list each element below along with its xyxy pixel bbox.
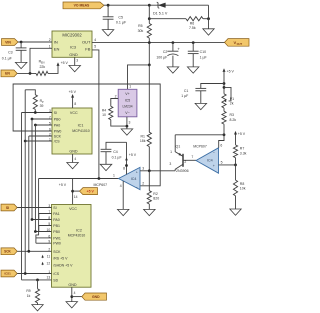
svg-text:OUT: OUT — [82, 39, 91, 44]
ground R2 — [144, 209, 156, 215]
wire bus b2 — [24, 90, 26, 274]
svg-text:LM234: LM234 — [122, 105, 132, 109]
svg-text:10: 10 — [102, 113, 106, 117]
digital pot IC2 MCP42010 box — [52, 205, 92, 288]
wire IC1 /CS pin — [25, 140, 52, 142]
pin numbers IC2 — [47, 204, 51, 279]
ground IC5 — [121, 129, 133, 135]
svg-text:MIC29302: MIC29302 — [62, 32, 82, 37]
wire bus b1 — [21, 113, 23, 280]
pin 8 label op-amp a — [123, 167, 125, 171]
wire IC2 VCC stem — [72, 179, 74, 205]
svg-text:PB0: PB0 — [53, 230, 60, 234]
svg-text:PW0: PW0 — [54, 130, 62, 134]
wire pin 5 net — [219, 164, 236, 166]
junction EN branch — [29, 72, 32, 75]
wire SCK to IC2 — [17, 250, 51, 252]
svg-text:3: 3 — [76, 59, 78, 63]
wire OUT rail — [92, 42, 225, 44]
pin 3 GND label — [76, 59, 78, 63]
svg-text:3: 3 — [142, 167, 144, 171]
junction OUT at C10 — [192, 41, 195, 44]
wire PW1 stub — [36, 237, 52, 239]
net label VO MEAS — [63, 2, 104, 9]
junction C1 tap — [223, 82, 226, 85]
svg-text:1: 1 — [113, 173, 115, 177]
svg-text:4: 4 — [74, 291, 76, 295]
wire bus b3 — [28, 136, 30, 251]
capacitor C1 1uF — [181, 84, 224, 104]
svg-text:MCP607: MCP607 — [193, 145, 207, 149]
junction IC5 branch — [148, 64, 151, 67]
net label VIN — [2, 39, 19, 46]
svg-text:−: − — [136, 185, 138, 189]
wire op-amp a V+ stub — [126, 142, 128, 174]
ground IC2 — [66, 302, 78, 308]
resistor R4 10 — [102, 99, 127, 127]
svg-text:1 µF: 1 µF — [181, 94, 188, 98]
resistor R6 7.5k — [186, 17, 203, 31]
resistor R5 30k — [138, 19, 152, 43]
ground C10 — [187, 67, 199, 73]
wire SI to IC2 — [17, 207, 51, 209]
svg-text:C4: C4 — [113, 150, 118, 154]
svg-text:+5 V: +5 V — [87, 189, 95, 193]
svg-text:EN: EN — [41, 61, 45, 64]
pin 2 label IC5 — [115, 95, 117, 99]
junction PB0 IC2 — [34, 230, 37, 233]
pin 5 label — [221, 160, 223, 164]
svg-text:30k: 30k — [138, 29, 144, 33]
svg-text:8: 8 — [74, 102, 76, 106]
wire IC5 V- stub — [126, 117, 128, 129]
power +5V arrow op-amp a — [125, 153, 137, 161]
svg-text:3: 3 — [129, 120, 131, 124]
svg-text:SI: SI — [53, 206, 56, 210]
wire OUT to IC5 V+ — [148, 43, 150, 65]
wire +5V rail drop to IC2 pots — [36, 179, 39, 244]
junction /CS1 bus — [24, 272, 27, 275]
svg-text:18k: 18k — [140, 139, 146, 143]
svg-text:6: 6 — [49, 127, 51, 131]
net label EN — [1, 70, 17, 77]
ground C4 — [100, 164, 112, 170]
svg-text:4: 4 — [120, 184, 122, 188]
svg-text:EN: EN — [54, 47, 60, 52]
svg-text:/RS +5 V: /RS +5 V — [53, 257, 68, 261]
svg-text:GND: GND — [68, 283, 77, 287]
svg-text:2N3906: 2N3906 — [176, 169, 189, 173]
junction IC5 ground — [126, 125, 129, 128]
resistor R2 820 — [147, 191, 159, 210]
power +5V arrow (EN pullup) — [57, 61, 69, 66]
wire EN branch to pin 1 — [30, 48, 52, 73]
wire SD pin — [22, 279, 52, 281]
svg-text:3: 3 — [169, 162, 171, 166]
wire +5V rail to op-amp — [39, 178, 119, 180]
wire wiper feedback — [13, 84, 160, 186]
svg-text:GND: GND — [69, 149, 78, 153]
svg-text:0.1 µF: 0.1 µF — [2, 56, 12, 60]
wire R6 rail — [149, 18, 208, 20]
power +5V arrow IC1 — [69, 90, 77, 108]
wire IC1 SI pin — [22, 112, 53, 114]
pin 7 label op-amp b — [191, 155, 193, 159]
ground C3 — [15, 62, 27, 68]
svg-text:PA0: PA0 — [53, 218, 59, 222]
capacitor C10 1uF — [188, 43, 207, 67]
svg-text:1: 1 — [129, 84, 131, 88]
svg-text:13: 13 — [47, 275, 51, 279]
pin 3 label op-amp a — [142, 167, 144, 171]
svg-text:R6: R6 — [190, 22, 195, 26]
svg-text:C2: C2 — [163, 50, 168, 54]
svg-text:/CS: /CS — [54, 140, 61, 144]
ground R8 — [230, 209, 241, 215]
pin 4 label op-amp a — [120, 184, 122, 188]
junction GND label tap — [70, 295, 73, 298]
svg-text:OUT: OUT — [237, 42, 243, 46]
power +5V arrow P1 column — [223, 68, 235, 73]
svg-text:12: 12 — [47, 261, 51, 265]
svg-text:1k: 1k — [27, 294, 31, 298]
svg-text:39: 39 — [40, 104, 44, 108]
pin numbers IC1 — [49, 102, 76, 161]
wire R2 column — [148, 171, 150, 191]
svg-text:22k: 22k — [39, 65, 45, 69]
junction P1 wiper tie — [223, 86, 226, 89]
svg-text:/SHDN +5 V: /SHDN +5 V — [53, 264, 73, 268]
svg-text:C5: C5 — [118, 15, 123, 19]
wire IC1 GND stem — [72, 154, 74, 163]
svg-text:+5 V: +5 V — [238, 132, 246, 136]
net label SI — [1, 204, 17, 211]
pin 14 label — [74, 195, 78, 199]
op-amp IC4 second half — [196, 148, 219, 173]
label MCP607 (a) — [94, 183, 108, 187]
svg-text:PA0: PA0 — [54, 124, 60, 128]
label +5V rail text — [59, 183, 67, 187]
net label SCK — [1, 248, 17, 255]
wire PW0 stub — [36, 242, 52, 244]
svg-text:GND: GND — [92, 295, 100, 299]
svg-text:+5 V: +5 V — [129, 153, 137, 157]
pin 4 label IC2 — [74, 291, 76, 295]
svg-text:4: 4 — [74, 157, 76, 161]
svg-text:FB: FB — [85, 47, 90, 52]
junction OUT at C2 — [172, 41, 175, 44]
svg-text:R9: R9 — [26, 289, 30, 293]
svg-text:−: − — [213, 151, 215, 155]
svg-text:P1: P1 — [230, 97, 234, 101]
svg-text:IC4: IC4 — [207, 158, 213, 162]
svg-text:6: 6 — [220, 143, 222, 147]
svg-text:VO MEAS: VO MEAS — [74, 4, 90, 8]
svg-text:IC3: IC3 — [70, 46, 76, 50]
junction PA0 IC2 — [31, 218, 34, 221]
power arrows pins 11 12 — [41, 255, 43, 265]
svg-text:PB0: PB0 — [54, 118, 61, 122]
wire /CS1 to IC2 — [17, 273, 51, 275]
wire PB0 pin IC2 — [35, 231, 51, 233]
digital pot IC1 MCP41010 box — [52, 108, 92, 154]
svg-text:2: 2 — [142, 182, 144, 186]
svg-text:R4: R4 — [102, 108, 106, 112]
pin 2 label op-amp a — [142, 182, 144, 186]
svg-text:VCC: VCC — [69, 207, 77, 211]
svg-text:10k: 10k — [240, 187, 246, 191]
pin 1 label IC5 — [129, 84, 131, 88]
wire EN to resistor — [17, 72, 36, 74]
ground C1 — [195, 103, 207, 109]
op-amp IC4 first half — [119, 167, 141, 189]
svg-text:4: 4 — [94, 38, 96, 42]
pin 3 label IC5 — [129, 120, 131, 124]
transistor Q1 2N3906 — [169, 135, 196, 173]
wire bus b4 — [31, 119, 33, 220]
svg-text:IC4: IC4 — [131, 177, 137, 181]
svg-text:IC1: IC1 — [78, 124, 84, 128]
resistor R7 3.3k — [233, 135, 246, 165]
capacitor C3 — [2, 42, 27, 62]
svg-text:Q1: Q1 — [176, 144, 181, 148]
junction top rail at R5 column — [148, 4, 151, 7]
pin 1 EN label — [49, 45, 51, 49]
svg-text:100 µF: 100 µF — [156, 56, 167, 60]
wire VIN to IN pin — [18, 41, 52, 43]
svg-text:R3: R3 — [230, 113, 235, 117]
svg-text:2k: 2k — [230, 102, 234, 106]
junction R9 tap — [36, 279, 39, 282]
svg-text:6: 6 — [48, 234, 50, 238]
pin 5 FB label — [94, 45, 96, 49]
junction pin5/R7/R8 — [234, 164, 237, 167]
svg-text:D1 5.1 V: D1 5.1 V — [153, 12, 168, 16]
wire REN to +5V — [48, 66, 58, 74]
svg-text:MCP41010: MCP41010 — [72, 129, 90, 133]
svg-text:SCK: SCK — [4, 250, 11, 254]
svg-text:SCK: SCK — [54, 135, 62, 139]
svg-text:VIN: VIN — [5, 40, 11, 44]
svg-text:+: + — [213, 164, 215, 168]
svg-text:V−: V− — [125, 111, 129, 115]
capacitor C2 100uF — [156, 43, 180, 67]
wire +5V to P1 — [223, 72, 225, 94]
wire IC1 SCK pin — [29, 135, 52, 137]
ground R6/D1 — [203, 29, 214, 35]
svg-text:2: 2 — [115, 95, 117, 99]
svg-text:IN: IN — [54, 39, 58, 44]
svg-text:GND: GND — [69, 53, 78, 57]
resistor R1 18k — [140, 132, 152, 146]
wire IC5 V+ stub — [128, 65, 150, 89]
svg-text:R5: R5 — [138, 24, 143, 28]
net label GND — [82, 293, 107, 300]
svg-text:MCP607: MCP607 — [94, 183, 108, 187]
svg-text:5: 5 — [94, 45, 96, 49]
ground C2 — [167, 67, 179, 73]
resistor Rp 39 — [25, 90, 44, 113]
junction VCC badge tap — [71, 190, 74, 193]
junction V+ stub — [125, 164, 128, 167]
ground IC1 — [67, 163, 79, 169]
svg-text:0.1 µF: 0.1 µF — [116, 21, 127, 25]
wire pin3 net — [140, 170, 175, 172]
svg-text:7: 7 — [191, 155, 193, 159]
ground IC3 — [69, 66, 81, 72]
wire IC5 node to R1 — [148, 65, 150, 132]
wire GND label stub — [72, 296, 82, 298]
junction PA0 corner — [34, 124, 37, 127]
wire pin 6 stub — [219, 135, 224, 148]
svg-text:PA1: PA1 — [53, 212, 59, 216]
junction pin3/R1 — [148, 169, 151, 172]
label MCP607 (b) — [193, 145, 207, 149]
wire op-amp a V- stub — [122, 181, 124, 210]
resistor REN 22k — [36, 59, 48, 75]
svg-text:2: 2 — [184, 160, 186, 164]
wire IC3 GND stem — [74, 57, 76, 65]
junction SCK bus — [27, 250, 30, 253]
junction OUT at R5 — [148, 41, 151, 44]
svg-text:7.5k: 7.5k — [189, 26, 196, 30]
svg-text:9: 9 — [48, 240, 50, 244]
svg-text:R8: R8 — [240, 182, 245, 186]
wire IC1 PB0 pin — [32, 118, 52, 120]
svg-text:C10: C10 — [200, 50, 206, 54]
svg-text:PW1: PW1 — [53, 236, 61, 240]
wire PA1 tie — [39, 214, 52, 220]
wire badge stub — [73, 190, 80, 192]
svg-text:EN: EN — [5, 72, 10, 76]
svg-text:11: 11 — [47, 254, 51, 258]
wire IC1 PA0 pin — [35, 124, 52, 126]
svg-text:+: + — [136, 171, 138, 175]
junction R6 rail left — [148, 17, 151, 20]
potentiometer P1 2k — [222, 87, 234, 108]
power +5V arrow R7 — [234, 131, 246, 136]
svg-text:+5 V: +5 V — [61, 61, 69, 65]
capacitor C5 — [103, 5, 127, 29]
regulator IC3 MIC29302 box — [52, 31, 92, 57]
svg-text:SI: SI — [6, 206, 9, 210]
resistor R3 8.2k — [222, 108, 236, 135]
resistor R8 10k — [233, 165, 245, 209]
svg-text:R7: R7 — [240, 147, 245, 151]
svg-text:0.1 µF: 0.1 µF — [112, 155, 122, 159]
svg-text:14: 14 — [74, 195, 78, 199]
wire D1 right drop — [208, 5, 210, 29]
net label /CS1 — [1, 270, 17, 277]
svg-text:PW0: PW0 — [53, 242, 61, 246]
wire VO MEAS to D1 top rail — [104, 4, 209, 6]
capacitor C4 0.1uF — [101, 142, 127, 164]
wire IC2 GND stem — [71, 287, 73, 301]
wire R1 to op-amp pin 3 — [148, 147, 150, 171]
svg-text:2: 2 — [49, 38, 51, 42]
wire FB net — [92, 50, 99, 179]
ground C5 — [102, 30, 114, 36]
net label VOUT — [225, 39, 250, 47]
svg-text:PB1: PB1 — [53, 224, 60, 228]
svg-text:R1: R1 — [140, 134, 145, 138]
junction /CS corner — [24, 140, 27, 143]
junction PB0 corner — [31, 118, 34, 121]
svg-text:1: 1 — [170, 150, 172, 154]
wire emitter net — [175, 134, 224, 136]
svg-text:V+: V+ — [125, 92, 129, 96]
ground op-amp a — [118, 209, 129, 215]
svg-text:MCP42010: MCP42010 — [68, 234, 86, 238]
svg-text:+5 V: +5 V — [59, 183, 67, 187]
svg-text:+5 V: +5 V — [227, 69, 235, 73]
wire PB1 tie — [39, 226, 52, 232]
wire PA0 pin IC2 — [32, 219, 52, 221]
svg-text:IC2: IC2 — [76, 228, 82, 232]
wire vertical to R6 rail — [148, 5, 150, 19]
resistor R9 1k — [26, 280, 39, 305]
svg-text:+5 V: +5 V — [69, 90, 77, 94]
svg-text:SCK: SCK — [53, 250, 61, 254]
svg-text:3.3k: 3.3k — [240, 151, 247, 155]
ground R9 — [32, 305, 43, 311]
junction FB on rail — [98, 177, 101, 180]
svg-text:8: 8 — [123, 167, 125, 171]
svg-text:C3: C3 — [8, 51, 13, 55]
svg-text:/CS1: /CS1 — [4, 272, 11, 276]
junction C3 tap — [20, 41, 23, 44]
pin 1 label op-amp a — [113, 173, 115, 177]
svg-text:SD: SD — [53, 279, 58, 283]
svg-text:C1: C1 — [184, 89, 189, 93]
junction Rp to SI wire — [34, 111, 37, 114]
pin 6 label — [220, 143, 222, 147]
current source IC5 LM234 box — [118, 89, 137, 117]
pin 2 IN label — [49, 38, 51, 42]
svg-text:VCC: VCC — [70, 111, 78, 115]
net label +5V badge — [80, 188, 98, 195]
svg-text:SI: SI — [54, 111, 57, 115]
svg-text:1 µF: 1 µF — [200, 56, 207, 60]
diode D1 zener 5.1V — [153, 2, 168, 16]
svg-text:820: 820 — [153, 197, 159, 201]
junction R6 right — [207, 17, 210, 20]
pin 4 OUT label — [94, 38, 96, 42]
svg-text:R2: R2 — [153, 192, 158, 196]
junction emitter/R3 — [223, 133, 226, 136]
svg-text:/CS: /CS — [53, 272, 60, 276]
svg-text:8.2k: 8.2k — [230, 118, 237, 122]
svg-text:5: 5 — [221, 160, 223, 164]
junction C5 tap — [107, 4, 110, 7]
wire bus b5 — [34, 125, 36, 232]
svg-text:IC5: IC5 — [125, 98, 131, 102]
